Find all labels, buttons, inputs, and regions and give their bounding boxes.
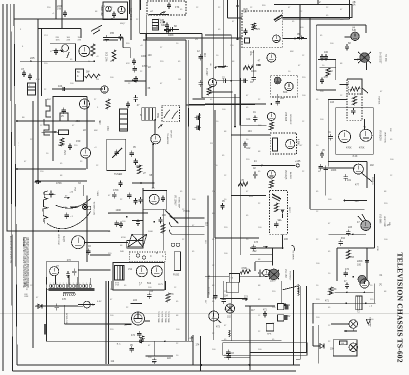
svg-text:472: 472 <box>131 334 136 337</box>
svg-text:334: 334 <box>341 237 346 240</box>
svg-text:2: 2 <box>69 283 70 285</box>
svg-text:2: 2 <box>79 283 80 285</box>
svg-text:100K: 100K <box>148 231 153 233</box>
svg-text:VERT OSC: VERT OSC <box>384 132 386 144</box>
svg-text:6AQ5: 6AQ5 <box>62 236 65 243</box>
svg-text:ANT 455KC: ANT 455KC <box>129 8 132 21</box>
svg-text:110: 110 <box>207 275 210 279</box>
svg-text:68K: 68K <box>94 130 98 132</box>
svg-text:SOUND IF: SOUND IF <box>289 114 291 125</box>
svg-text:103: 103 <box>149 290 154 293</box>
svg-text:101: 101 <box>347 179 352 182</box>
svg-text:IF AMP: IF AMP <box>205 68 208 76</box>
svg-text:OSC: OSC <box>106 126 108 131</box>
svg-text:V8 12AU7: V8 12AU7 <box>173 195 176 206</box>
svg-text:+135: +135 <box>295 160 301 163</box>
svg-text:47K: 47K <box>78 39 82 41</box>
svg-text:TUNER: TUNER <box>114 173 123 176</box>
svg-text:TO PIX TUBE: TO PIX TUBE <box>167 311 169 323</box>
svg-text:2: 2 <box>60 283 61 285</box>
svg-text:47K: 47K <box>126 63 130 65</box>
svg-text:5C5 10%: 5C5 10% <box>105 52 107 61</box>
svg-text:224: 224 <box>133 299 138 302</box>
svg-text:455: 455 <box>110 32 115 35</box>
svg-text:104: 104 <box>248 130 253 133</box>
svg-text:VERT OSC: VERT OSC <box>57 234 59 246</box>
svg-text:104: 104 <box>58 84 63 88</box>
svg-text:V10 6W6: V10 6W6 <box>379 214 381 224</box>
svg-text:270: 270 <box>67 259 72 262</box>
svg-text:V5 6BQ7A: V5 6BQ7A <box>379 130 382 141</box>
svg-text:V6A: V6A <box>74 187 77 191</box>
svg-text:150: 150 <box>76 139 81 143</box>
svg-text:TO CRT: TO CRT <box>207 287 209 295</box>
svg-text:2: 2 <box>83 283 84 285</box>
svg-text:104: 104 <box>246 118 251 121</box>
svg-text:220K: 220K <box>357 260 363 263</box>
svg-text:6.3V: 6.3V <box>97 301 102 303</box>
svg-text:V9 6AQ5: V9 6AQ5 <box>284 170 287 180</box>
svg-text:TO PIX: TO PIX <box>384 54 386 62</box>
svg-text:100K: 100K <box>58 144 64 147</box>
svg-text:V12: V12 <box>128 269 133 271</box>
svg-text:8.2K: 8.2K <box>353 155 358 158</box>
svg-text:47K: 47K <box>62 298 67 301</box>
svg-text:CAUTION:: CAUTION: <box>22 237 25 247</box>
svg-text:OF CRT: OF CRT <box>170 130 172 139</box>
svg-text:TO ANODE: TO ANODE <box>166 133 169 145</box>
svg-text:1M: 1M <box>244 11 247 13</box>
svg-text:6C4: 6C4 <box>283 91 288 94</box>
svg-text:TUNER UNIT: TUNER UNIT <box>100 5 102 17</box>
svg-text:RECT: RECT <box>288 207 290 214</box>
svg-text:4.5MC: 4.5MC <box>297 139 299 146</box>
svg-text:15KV: 15KV <box>270 281 276 283</box>
svg-text:106: 106 <box>284 238 289 241</box>
svg-text:5U4: 5U4 <box>147 283 152 285</box>
svg-text:1W: 1W <box>57 7 61 11</box>
svg-text:M: M <box>287 139 289 142</box>
svg-text:103: 103 <box>330 101 335 104</box>
svg-text:B5W: B5W <box>156 113 158 119</box>
svg-text:100K: 100K <box>168 34 174 37</box>
svg-text:OFF: OFF <box>24 296 29 298</box>
svg-text:AUDIO: AUDIO <box>289 172 292 179</box>
svg-text:100: 100 <box>148 54 153 57</box>
svg-text:V3B 6U8: V3B 6U8 <box>284 112 286 122</box>
svg-text:115V: 115V <box>24 285 29 287</box>
svg-text:47: 47 <box>21 67 24 71</box>
svg-text:3V4: 3V4 <box>256 28 261 31</box>
svg-text:473: 473 <box>254 241 259 244</box>
svg-text:GND: GND <box>213 298 218 300</box>
svg-text:100K: 100K <box>331 169 337 172</box>
svg-text:477: 477 <box>355 184 360 187</box>
svg-text:TO DEFL COIL: TO DEFL COIL <box>92 202 94 216</box>
svg-text:TO SPKR: TO SPKR <box>292 250 294 260</box>
svg-text:2: 2 <box>86 283 87 285</box>
svg-text:100K: 100K <box>116 209 122 212</box>
svg-text:6BQ7: 6BQ7 <box>120 23 126 25</box>
svg-text:B+ BOOST: B+ BOOST <box>379 52 381 64</box>
svg-text:68K: 68K <box>290 51 294 53</box>
svg-text:J30: J30 <box>76 119 81 123</box>
svg-text:102: 102 <box>370 164 375 167</box>
svg-text:100: 100 <box>162 214 167 217</box>
svg-text:472: 472 <box>345 268 350 271</box>
svg-text:22K: 22K <box>389 128 391 132</box>
svg-text:117V: 117V <box>158 284 163 286</box>
svg-text:1M: 1M <box>178 79 181 81</box>
svg-text:47K: 47K <box>170 293 175 296</box>
svg-text:22K: 22K <box>67 39 71 41</box>
svg-text:2: 2 <box>89 283 90 285</box>
svg-text:110: 110 <box>205 222 208 226</box>
svg-text:FUSE: FUSE <box>173 275 180 277</box>
svg-text:2: 2 <box>76 283 77 285</box>
svg-text:2: 2 <box>56 283 57 285</box>
svg-text:ANT: ANT <box>47 98 52 101</box>
svg-text:TO PIX TUBE: TO PIX TUBE <box>164 311 166 323</box>
svg-text:470K: 470K <box>376 246 378 251</box>
svg-text:SEL: SEL <box>278 220 283 222</box>
svg-text:2: 2 <box>73 283 74 285</box>
svg-text:47K: 47K <box>36 79 40 81</box>
svg-text:470K: 470K <box>346 147 352 150</box>
svg-text:6A: 6A <box>353 3 356 6</box>
svg-text:103: 103 <box>350 256 355 259</box>
svg-text:2: 2 <box>63 283 64 285</box>
svg-text:222: 222 <box>253 250 258 253</box>
svg-text:470K: 470K <box>113 189 119 192</box>
svg-text:SPK: SPK <box>267 334 272 336</box>
svg-text:223: 223 <box>348 226 353 229</box>
svg-text:1W: 1W <box>388 222 390 225</box>
svg-text:2: 2 <box>53 283 54 285</box>
svg-text:YOKE: YOKE <box>96 191 98 197</box>
svg-text:105: 105 <box>249 195 254 198</box>
svg-text:. . .: . . . <box>17 142 20 146</box>
svg-text:110: 110 <box>203 53 206 57</box>
svg-text:SYNC SEP: SYNC SEP <box>178 197 180 209</box>
svg-text:ALL RESISTORS 1/2 W 10% TOL: ALL RESISTORS 1/2 W 10% TOL <box>9 236 12 263</box>
svg-text:470: 470 <box>240 179 245 182</box>
svg-text:470K: 470K <box>359 147 365 150</box>
svg-text:225: 225 <box>30 56 35 60</box>
svg-text:SC: SC <box>379 283 381 287</box>
svg-text:2: 2 <box>50 283 51 285</box>
svg-text:6J6: 6J6 <box>352 29 357 32</box>
svg-text:TO PIX TUBE: TO PIX TUBE <box>157 311 159 323</box>
svg-text:470K: 470K <box>56 182 62 185</box>
svg-text:6V: 6V <box>288 316 291 318</box>
svg-text:3V4: 3V4 <box>63 150 67 155</box>
svg-text:FOCUS: FOCUS <box>371 177 373 185</box>
svg-text:1M: 1M <box>96 79 99 81</box>
svg-text:100: 100 <box>324 51 329 54</box>
svg-text:THE HIGH VOLTAGE CIRCUIT BEFOR: THE HIGH VOLTAGE CIRCUIT BEFORE ANY OPER… <box>27 237 30 288</box>
svg-text:TO PIX TUBE: TO PIX TUBE <box>160 311 162 323</box>
svg-text:102: 102 <box>246 147 251 150</box>
svg-text:TELEVISION CHASSIS TS-602: TELEVISION CHASSIS TS-602 <box>396 253 405 363</box>
svg-text:100: 100 <box>357 264 362 267</box>
svg-text:10%: 10% <box>56 39 60 41</box>
svg-text:15K: 15K <box>333 289 338 291</box>
svg-text:HV RECT: HV RECT <box>289 271 291 281</box>
svg-text:47K: 47K <box>324 76 329 79</box>
svg-text:V3A 6U8: V3A 6U8 <box>378 96 381 105</box>
svg-text:V11 1B3: V11 1B3 <box>284 269 286 278</box>
svg-text:B.C.: B.C. <box>117 344 122 346</box>
svg-text:INTERLOCK: INTERLOCK <box>65 313 67 325</box>
svg-text:2: 2 <box>66 283 67 285</box>
